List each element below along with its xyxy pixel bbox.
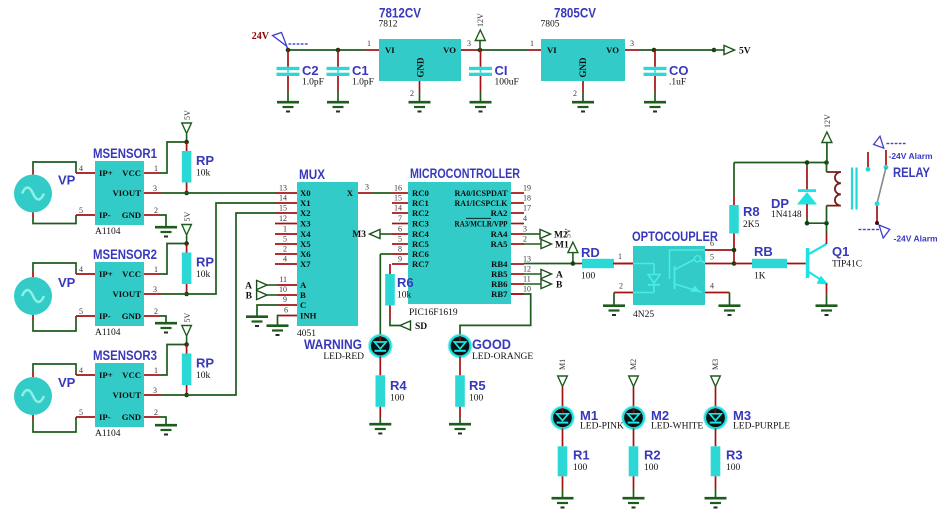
output buffer B (RB6) — [524, 279, 563, 290]
sensor MSENSOR2 A1104 — [76, 247, 162, 338]
svg-text:1: 1 — [154, 265, 158, 274]
svg-text:RA4: RA4 — [491, 229, 509, 239]
svg-text:3: 3 — [153, 184, 157, 193]
svg-text:19: 19 — [523, 184, 531, 193]
svg-text:X2: X2 — [300, 208, 311, 218]
wire 7812 VO to 7805 VI — [461, 49, 541, 51]
svg-text:1: 1 — [530, 39, 534, 48]
svg-text:2: 2 — [154, 307, 158, 316]
input buffer SD — [400, 321, 427, 332]
svg-text:Q1: Q1 — [832, 244, 849, 259]
svg-text:VI: VI — [547, 45, 557, 55]
ground 4N25 pin4 — [719, 306, 741, 315]
svg-text:VCC: VCC — [122, 370, 141, 380]
power 5V terminal RP2 — [182, 212, 192, 244]
svg-text:LED-PINK: LED-PINK — [580, 422, 624, 432]
svg-text:1: 1 — [154, 366, 158, 375]
wire DP node to Q1 node — [805, 160, 829, 225]
svg-text:RB: RB — [754, 244, 773, 259]
svg-text:VO: VO — [606, 45, 619, 55]
ground R5 — [449, 424, 471, 433]
ground CI — [470, 102, 492, 111]
wire M2 LED to R2 — [633, 428, 635, 446]
svg-text:IP-: IP- — [99, 311, 111, 321]
svg-text:VIOUT: VIOUT — [113, 188, 142, 198]
input terminal -24V Alarm (top) — [874, 136, 933, 161]
svg-text:10k: 10k — [196, 270, 211, 280]
svg-text:M1: M1 — [558, 359, 567, 370]
svg-text:4: 4 — [79, 265, 83, 274]
wire GOOD LED to R5 — [459, 357, 461, 376]
svg-text:13: 13 — [279, 184, 287, 193]
svg-text:12V: 12V — [476, 13, 485, 27]
svg-text:R4: R4 — [390, 378, 407, 393]
svg-text:GND: GND — [122, 412, 141, 422]
led WARNING LED-RED — [304, 334, 393, 362]
wire MUX X to RC0 — [372, 192, 392, 194]
svg-text:IP-: IP- — [99, 210, 111, 220]
svg-text:X3: X3 — [300, 219, 311, 229]
resistor RB 1K — [734, 244, 806, 282]
svg-text:5: 5 — [710, 253, 714, 262]
svg-text:RB5: RB5 — [491, 269, 508, 279]
svg-text:RD: RD — [581, 245, 600, 260]
svg-text:GND: GND — [122, 210, 141, 220]
ground R1 — [552, 498, 574, 507]
input terminal M1 (LED column) — [558, 359, 568, 407]
wire 7805 VO to 5V output — [625, 49, 714, 51]
svg-text:7: 7 — [398, 214, 402, 223]
capacitor C1 1.0pF — [327, 50, 374, 101]
svg-text:1: 1 — [367, 39, 371, 48]
svg-text:RB4: RB4 — [491, 259, 508, 269]
svg-text:10k: 10k — [196, 371, 211, 381]
svg-text:MSENSOR2: MSENSOR2 — [93, 247, 157, 262]
svg-text:RC2: RC2 — [412, 208, 429, 218]
svg-text:VP: VP — [58, 375, 76, 390]
svg-text:RC3: RC3 — [412, 219, 430, 229]
svg-text:A1104: A1104 — [95, 429, 121, 439]
svg-text:X7: X7 — [300, 259, 311, 269]
capacitor C2 1.0pF — [277, 50, 324, 101]
wire top rail 12V — [734, 162, 827, 164]
svg-text:7812: 7812 — [379, 20, 398, 30]
junction C2 — [286, 48, 291, 53]
svg-text:2: 2 — [573, 89, 577, 98]
svg-text:5: 5 — [79, 206, 83, 215]
wire VCC1 to RP — [160, 142, 187, 173]
svg-text:RC4: RC4 — [412, 229, 430, 239]
led M3 LED-PURPLE — [703, 405, 790, 431]
resistor R1 100 — [558, 446, 590, 497]
svg-text:10k: 10k — [397, 291, 412, 301]
svg-text:IP+: IP+ — [99, 370, 113, 380]
svg-text:5: 5 — [398, 235, 402, 244]
ground U 7805 — [572, 102, 594, 111]
svg-text:3: 3 — [523, 225, 527, 234]
resistor RD 100 — [577, 245, 633, 282]
node 24V input terminal — [252, 31, 308, 50]
wire VP2 to IP+ — [33, 263, 76, 277]
svg-text:1.0pF: 1.0pF — [302, 78, 324, 88]
input terminal -24V Alarm (bottom) — [859, 225, 939, 244]
wire VP3 to IP- — [33, 415, 76, 432]
svg-text:4: 4 — [710, 282, 714, 291]
input buffer B (MUX) — [246, 290, 277, 301]
svg-text:4: 4 — [79, 366, 83, 375]
svg-text:13: 13 — [523, 255, 531, 264]
ground R2 — [623, 498, 645, 507]
svg-text:RB6: RB6 — [491, 279, 508, 289]
svg-text:RB7: RB7 — [491, 289, 508, 299]
microcontroller U PIC16F1619 — [392, 166, 531, 318]
wire M1 LED to R1 — [562, 428, 564, 446]
resistor RP (1) 10k — [182, 140, 215, 196]
svg-text:4: 4 — [523, 214, 527, 223]
wire VIOUT1 to MUX X0 — [162, 192, 297, 194]
svg-text:1.0pF: 1.0pF — [352, 78, 374, 88]
wire GND1 to ground — [160, 215, 166, 226]
ground R3 — [705, 498, 727, 507]
svg-text:4: 4 — [79, 164, 83, 173]
svg-text:X0: X0 — [300, 188, 311, 198]
svg-text:RA0/ICSPDAT: RA0/ICSPDAT — [455, 188, 508, 198]
svg-text:R1: R1 — [573, 448, 590, 463]
svg-text:1: 1 — [283, 225, 287, 234]
svg-text:1K: 1K — [754, 272, 766, 282]
node 5V output terminal — [712, 45, 751, 56]
svg-text:100: 100 — [581, 272, 596, 282]
node 12V — [475, 13, 485, 52]
svg-text:14: 14 — [279, 194, 287, 203]
wire RB7 to GOOD LED — [460, 294, 531, 336]
svg-text:MSENSOR3: MSENSOR3 — [93, 348, 157, 363]
svg-text:X: X — [347, 188, 354, 198]
svg-text:M2: M2 — [629, 359, 638, 370]
wire 4N25 pin4 to ground — [729, 293, 731, 305]
wire MUX C to ground — [257, 305, 277, 316]
svg-text:-24V Alarm: -24V Alarm — [889, 151, 934, 161]
resistor R4 100 — [376, 375, 408, 423]
svg-text:B: B — [246, 292, 253, 302]
svg-text:5V: 5V — [183, 110, 192, 120]
svg-text:7805CV: 7805CV — [554, 6, 596, 21]
svg-text:100: 100 — [644, 463, 659, 473]
wire RC6 to WARNING LED — [380, 253, 392, 255]
svg-text:RC1: RC1 — [412, 198, 429, 208]
svg-text:MUX: MUX — [299, 167, 325, 182]
svg-text:VO: VO — [443, 45, 456, 55]
svg-text:A: A — [300, 280, 307, 290]
sensor MSENSOR1 A1104 — [76, 146, 162, 237]
ground MSENSOR1 — [155, 227, 177, 236]
svg-text:RP: RP — [196, 255, 214, 270]
svg-text:MSENSOR1: MSENSOR1 — [93, 146, 157, 161]
ground MUX C — [246, 317, 268, 326]
diode DP 1N4148 — [771, 163, 816, 224]
led GOOD LED-ORANGE — [448, 334, 534, 362]
wire 7812 GND pin to ground — [419, 81, 421, 101]
svg-text:RA3/MCLR/VPP: RA3/MCLR/VPP — [455, 219, 509, 229]
wire 7805 GND pin to ground — [582, 81, 584, 101]
svg-text:C2: C2 — [302, 63, 319, 78]
svg-text:LED-ORANGE: LED-ORANGE — [472, 352, 533, 362]
mux U MUX 4051 — [275, 167, 372, 339]
svg-text:IP+: IP+ — [99, 168, 113, 178]
svg-text:16: 16 — [394, 184, 402, 193]
wire R6 to SD buffer — [390, 320, 400, 326]
wire GND2 to ground — [160, 316, 166, 322]
svg-text:LED-WHITE: LED-WHITE — [651, 422, 703, 432]
transistor Q1 TIP41C — [806, 244, 862, 284]
svg-text:C1: C1 — [352, 63, 369, 78]
svg-text:10k: 10k — [196, 169, 211, 179]
svg-text:DP: DP — [771, 196, 789, 211]
svg-text:R6: R6 — [397, 275, 414, 290]
input terminal M3 (LED column) — [711, 359, 721, 407]
svg-text:9: 9 — [398, 255, 402, 264]
svg-text:-24V Alarm: -24V Alarm — [894, 234, 939, 244]
svg-text:2: 2 — [619, 282, 623, 291]
svg-text:A: A — [556, 271, 563, 281]
svg-text:6: 6 — [710, 239, 714, 248]
optocoupler U 4N25 — [613, 229, 734, 320]
svg-text:5V: 5V — [739, 47, 751, 57]
svg-text:CI: CI — [495, 63, 508, 78]
output buffer M1 (RA5) — [524, 239, 569, 250]
svg-text:2: 2 — [154, 408, 158, 417]
svg-text:VP: VP — [58, 173, 76, 188]
wire WARNING LED to R4 — [379, 357, 381, 376]
svg-text:9: 9 — [283, 295, 287, 304]
svg-text:.1uF: .1uF — [669, 78, 686, 88]
wire VP1 to IP- — [33, 213, 76, 224]
ground C1 — [327, 102, 349, 111]
svg-text:VCC: VCC — [122, 168, 141, 178]
resistor RP (2) 10k — [182, 241, 215, 296]
svg-text:24V: 24V — [252, 31, 270, 42]
svg-text:2: 2 — [410, 89, 414, 98]
wire 24V rail to 7812 VI — [288, 49, 379, 51]
svg-text:3: 3 — [630, 39, 634, 48]
svg-text:A: A — [245, 282, 252, 292]
wire RB4 to RD — [524, 261, 577, 266]
resistor R8 2K5 — [729, 163, 759, 266]
svg-text:RC6: RC6 — [412, 249, 430, 259]
svg-text:12V: 12V — [823, 114, 832, 128]
svg-text:MICROCONTROLLER: MICROCONTROLLER — [410, 166, 520, 181]
resistor R2 100 — [629, 446, 661, 497]
svg-text:GND: GND — [122, 311, 141, 321]
power 5V terminal RB4 — [564, 228, 578, 264]
svg-text:LED-RED: LED-RED — [323, 352, 364, 362]
svg-text:100: 100 — [469, 394, 484, 404]
svg-text:5V: 5V — [183, 313, 192, 323]
resistor RP (3) 10k — [182, 342, 215, 397]
ground MUX INH — [267, 326, 289, 335]
ground U 7812 — [409, 102, 431, 111]
svg-text:RC7: RC7 — [412, 259, 430, 269]
ground CO — [644, 102, 666, 111]
svg-text:4N25: 4N25 — [633, 310, 654, 320]
svg-text:VIOUT: VIOUT — [113, 289, 142, 299]
ground MSENSOR3 — [155, 425, 177, 434]
svg-text:5V: 5V — [564, 228, 573, 238]
svg-text:RA2: RA2 — [491, 208, 508, 218]
ground Q1 — [816, 306, 838, 315]
led M2 LED-WHITE — [621, 405, 703, 431]
svg-text:M3: M3 — [711, 359, 720, 370]
svg-text:X1: X1 — [300, 198, 311, 208]
wire VP1 to IP+ — [33, 162, 76, 175]
regulator U 7812CV — [367, 6, 471, 99]
wire Q1 emitter to ground — [826, 284, 828, 305]
wire VP3 to IP+ — [33, 364, 76, 377]
wire VCC3 to RP — [160, 345, 187, 376]
wire MUX INH to ground — [278, 316, 281, 325]
svg-text:2K5: 2K5 — [743, 220, 760, 230]
svg-text:3: 3 — [365, 183, 369, 192]
svg-text:RP: RP — [196, 153, 214, 168]
svg-text:CO: CO — [669, 63, 689, 78]
input buffer A (MUX) — [245, 280, 277, 291]
svg-text:TIP41C: TIP41C — [832, 260, 862, 270]
power 12V terminal (relay) — [822, 114, 832, 163]
junction CO — [652, 48, 657, 53]
svg-text:100: 100 — [573, 463, 588, 473]
regulator U 7805CV — [530, 6, 634, 99]
svg-text:R3: R3 — [726, 448, 743, 463]
svg-text:RC5: RC5 — [412, 239, 430, 249]
svg-text:5: 5 — [79, 307, 83, 316]
svg-text:10: 10 — [279, 285, 287, 294]
svg-text:5V: 5V — [183, 212, 192, 222]
svg-text:14: 14 — [394, 204, 402, 213]
svg-text:RP: RP — [196, 356, 214, 371]
svg-text:2: 2 — [523, 235, 527, 244]
svg-text:R5: R5 — [469, 378, 486, 393]
svg-text:PIC16F1619: PIC16F1619 — [409, 308, 458, 318]
svg-text:C: C — [300, 300, 306, 310]
svg-text:6: 6 — [398, 225, 402, 234]
svg-text:15: 15 — [279, 204, 287, 213]
svg-text:12: 12 — [279, 214, 287, 223]
svg-text:1: 1 — [154, 164, 158, 173]
svg-text:R2: R2 — [644, 448, 661, 463]
svg-text:B: B — [300, 290, 306, 300]
svg-text:A1104: A1104 — [95, 328, 121, 338]
sensor MSENSOR3 A1104 — [76, 348, 162, 439]
svg-text:RA5: RA5 — [491, 239, 509, 249]
wire Q1 collector — [826, 223, 828, 244]
capacitor CO .1uF — [644, 50, 689, 101]
svg-text:2: 2 — [154, 206, 158, 215]
wire 4N25 pin2 to ground — [613, 293, 615, 305]
wire VIOUT3 to MUX X2 — [162, 213, 297, 395]
ground MSENSOR2 — [155, 323, 177, 332]
svg-text:X6: X6 — [300, 249, 311, 259]
source VP3 (sine) — [14, 375, 76, 415]
svg-text:X4: X4 — [300, 229, 311, 239]
wire GND3 to ground — [160, 417, 166, 424]
svg-text:10: 10 — [523, 285, 531, 294]
svg-text:SD: SD — [415, 322, 427, 332]
relay RELAY coil — [827, 163, 931, 224]
resistor R5 100 — [455, 375, 485, 423]
power 5V terminal RP1 — [182, 110, 192, 142]
ground 4N25 pin2 — [603, 306, 625, 315]
led M1 LED-PINK — [550, 405, 624, 431]
svg-text:RC0: RC0 — [412, 188, 430, 198]
svg-text:B: B — [556, 281, 563, 291]
wire M3 LED to R3 — [715, 428, 717, 446]
ground C2 — [277, 102, 299, 111]
svg-text:GND: GND — [416, 57, 426, 78]
svg-text:17: 17 — [523, 204, 531, 213]
svg-text:IP-: IP- — [99, 412, 111, 422]
svg-text:12: 12 — [523, 265, 531, 274]
svg-text:INH: INH — [300, 311, 317, 321]
svg-text:RELAY: RELAY — [893, 165, 930, 180]
svg-text:GOOD: GOOD — [472, 337, 511, 352]
svg-text:A1104: A1104 — [95, 227, 121, 237]
resistor R6 10k — [385, 264, 413, 320]
svg-text:7805: 7805 — [541, 20, 560, 30]
svg-text:18: 18 — [523, 194, 531, 203]
svg-text:OPTOCOUPLER: OPTOCOUPLER — [632, 229, 718, 244]
svg-text:15: 15 — [394, 194, 402, 203]
svg-text:11: 11 — [523, 275, 531, 284]
svg-text:1: 1 — [618, 252, 622, 261]
junction C1 — [336, 48, 341, 53]
svg-text:VIOUT: VIOUT — [113, 390, 142, 400]
svg-text:6: 6 — [284, 306, 288, 315]
capacitor CI 100uF — [469, 50, 519, 101]
relay contact (switch) — [866, 150, 889, 225]
svg-text:100uF: 100uF — [495, 78, 519, 88]
svg-text:M1: M1 — [555, 241, 569, 251]
svg-text:3: 3 — [153, 386, 157, 395]
wire VP2 to IP- — [33, 315, 76, 331]
svg-text:1N4148: 1N4148 — [771, 210, 802, 220]
svg-text:IP+: IP+ — [99, 269, 113, 279]
input terminal M2 (LED column) — [629, 359, 639, 407]
svg-text:VI: VI — [385, 45, 395, 55]
svg-text:RA1/ICSPCLK: RA1/ICSPCLK — [455, 198, 508, 208]
svg-text:R8: R8 — [743, 204, 760, 219]
svg-text:2: 2 — [283, 245, 287, 254]
output buffer M2 (RA4) — [524, 229, 568, 240]
svg-text:VP: VP — [58, 275, 76, 290]
svg-text:LED-PURPLE: LED-PURPLE — [733, 422, 790, 432]
svg-text:3: 3 — [153, 285, 157, 294]
power 5V terminal RP3 — [182, 313, 192, 345]
svg-text:X5: X5 — [300, 239, 311, 249]
wire VIOUT2 to MUX X1 — [162, 203, 297, 294]
svg-text:WARNING: WARNING — [304, 337, 362, 352]
svg-text:7812CV: 7812CV — [379, 6, 421, 21]
output buffer A (RB5) — [524, 269, 563, 280]
source VP1 (sine) — [14, 173, 76, 213]
svg-text:4: 4 — [283, 255, 287, 264]
svg-text:8: 8 — [398, 245, 402, 254]
svg-text:100: 100 — [726, 463, 741, 473]
svg-text:M3: M3 — [352, 230, 366, 240]
svg-text:GND: GND — [578, 57, 588, 78]
svg-text:5: 5 — [79, 408, 83, 417]
svg-text:100: 100 — [390, 394, 405, 404]
resistor R3 100 — [711, 446, 743, 497]
